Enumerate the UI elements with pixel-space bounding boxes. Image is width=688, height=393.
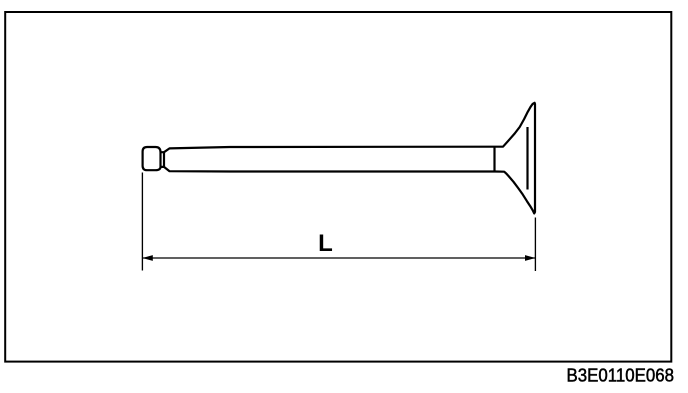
right extension line <box>534 218 536 272</box>
valve head (bell) <box>495 103 535 214</box>
stem-to-head junction line <box>493 146 495 172</box>
dimension line <box>142 257 535 259</box>
svg-text:L: L <box>318 230 333 257</box>
left extension line <box>141 173 143 271</box>
right arrowhead <box>525 255 536 261</box>
left arrowhead <box>142 255 153 261</box>
valve keeper groove <box>161 152 165 167</box>
valve tip (keeper end) <box>143 147 161 170</box>
valve stem <box>164 147 495 172</box>
valve face margin line <box>526 127 528 190</box>
svg-text:B3E0110E068: B3E0110E068 <box>567 366 675 386</box>
